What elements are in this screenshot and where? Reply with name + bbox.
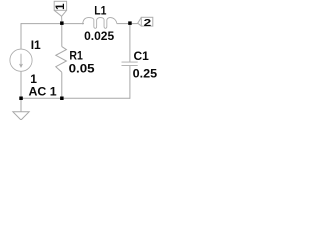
svg-text:0.25: 0.25 — [133, 67, 158, 81]
wire node 1 to inductor — [62, 23, 84, 25]
wire node 2 to flag 2 tip — [130, 23, 138, 25]
flag 2 pointer — [138, 17, 142, 26]
svg-text:L1: L1 — [94, 3, 106, 17]
inductor L1 coil — [83, 18, 117, 29]
junction dot bottom left — [19, 97, 23, 101]
svg-text:AC 1: AC 1 — [29, 84, 57, 98]
svg-text:I1: I1 — [31, 38, 41, 52]
current source I1 arrow stem — [20, 54, 22, 66]
current source I1 circle — [10, 49, 32, 71]
wire resistor branch bottom — [61, 72, 63, 98]
capacitor C1 plate top — [122, 61, 138, 63]
current source I1 arrow head — [20, 64, 23, 67]
wire left branch top — [20, 23, 22, 49]
flag 1 box — [54, 1, 66, 10]
svg-text:C1: C1 — [134, 49, 150, 63]
ground triangle — [13, 112, 29, 120]
wire bottom — [21, 97, 130, 99]
svg-text:0.025: 0.025 — [84, 29, 114, 43]
wire top left corner to node 1 — [21, 23, 62, 25]
ground stem — [20, 98, 22, 112]
flag 2 box — [141, 17, 153, 26]
wire right branch above cap — [129, 24, 131, 62]
junction dot node 1 — [60, 21, 64, 25]
resistor R1 zigzag — [56, 47, 67, 73]
wire right branch below cap — [129, 66, 131, 99]
junction dot node 2 — [128, 21, 132, 25]
wire resistor branch top — [61, 24, 63, 47]
svg-text:0.05: 0.05 — [69, 61, 95, 75]
svg-text:1: 1 — [55, 3, 67, 10]
wire left branch bottom — [20, 71, 22, 98]
flag 1 stem — [61, 16, 63, 21]
flag 1 pointer — [54, 10, 66, 16]
junction dot bottom resistor — [60, 97, 64, 101]
svg-text:2: 2 — [144, 17, 152, 29]
capacitor C1 plate bottom — [122, 65, 138, 67]
wire inductor to node 2 — [117, 23, 130, 25]
